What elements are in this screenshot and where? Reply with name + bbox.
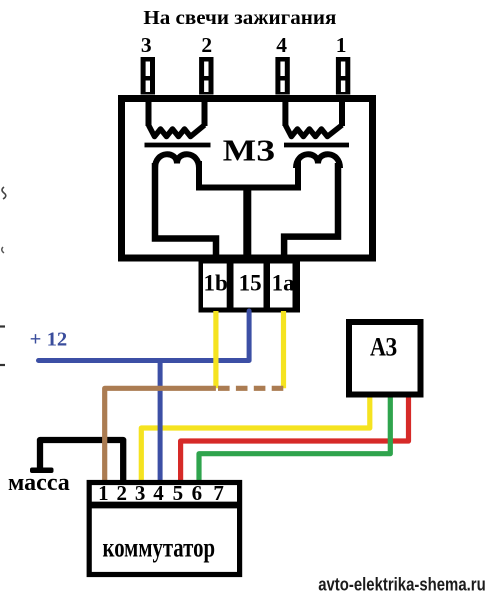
A3 box bbox=[349, 322, 421, 395]
svg-text:1: 1 bbox=[336, 33, 347, 57]
svg-text:АЗ: АЗ bbox=[370, 333, 397, 362]
HV terminal 3 bbox=[141, 57, 155, 95]
svg-text:+ 12: + 12 bbox=[30, 330, 67, 351]
svg-text:3: 3 bbox=[135, 481, 146, 505]
coil T2 secondary winding bbox=[285, 125, 342, 137]
coil T1 primary winding bbox=[155, 154, 199, 168]
edge artifact 2 bbox=[2, 247, 4, 253]
svg-text:4: 4 bbox=[276, 33, 287, 57]
edge artifact 1 bbox=[2, 187, 6, 199]
svg-text:масса: масса bbox=[8, 470, 70, 496]
wire yellow A3 to pin3 bbox=[141, 396, 369, 482]
wire yellow from 1b bbox=[213, 311, 218, 388]
HV terminal 2 bbox=[199, 57, 213, 95]
coil T2 core bbox=[284, 143, 349, 148]
HV terminal 4 bbox=[275, 57, 289, 95]
coil T2 secondary leads bbox=[285, 98, 342, 126]
svg-text:2: 2 bbox=[116, 481, 127, 505]
svg-text:7: 7 bbox=[213, 481, 224, 505]
wire yellow from 1a bbox=[281, 311, 286, 388]
svg-text:avto-elektrika-shema.ru: avto-elektrika-shema.ru bbox=[318, 574, 486, 594]
primary center connector bbox=[199, 161, 298, 188]
svg-text:2: 2 bbox=[201, 33, 212, 57]
svg-text:коммутатор: коммутатор bbox=[103, 533, 216, 563]
coil T1 secondary winding bbox=[149, 125, 205, 137]
wire blue drop to pin4 bbox=[158, 361, 163, 483]
coil T1 primary outer lead to 1b bbox=[155, 163, 216, 263]
edge artifact 3 bbox=[0, 325, 5, 327]
svg-text:3: 3 bbox=[141, 33, 152, 57]
ground symbol bbox=[30, 468, 54, 474]
connector block 1b 15 1a bbox=[199, 258, 301, 313]
coil T2 primary winding bbox=[296, 154, 340, 168]
coil T1 secondary leads bbox=[149, 98, 205, 126]
svg-text:1: 1 bbox=[98, 481, 109, 505]
wire brown dashed bbox=[218, 386, 285, 391]
watermark avto-elektrika-shema.ru bbox=[318, 574, 486, 594]
ground wire from pin2 bbox=[40, 440, 123, 482]
svg-text:15: 15 bbox=[239, 271, 262, 296]
commutator box bbox=[89, 483, 240, 575]
svg-text:1a: 1a bbox=[272, 271, 296, 296]
svg-text:1b: 1b bbox=[204, 271, 228, 296]
wire green A3 to pin6 bbox=[199, 396, 390, 482]
ignition module box МЗ bbox=[122, 99, 373, 259]
coil T2 primary outer lead to 1a bbox=[284, 163, 338, 263]
svg-text:4: 4 bbox=[153, 481, 164, 505]
wire red A3 to pin5 bbox=[181, 396, 409, 482]
svg-text:МЗ: МЗ bbox=[223, 133, 275, 168]
svg-text:5: 5 bbox=[173, 481, 184, 505]
wire brown pin1 bbox=[105, 388, 216, 482]
center tap lead to 15 bbox=[243, 188, 251, 264]
wire blue +12 to terminal 15 bbox=[39, 311, 250, 361]
coil T1 core bbox=[145, 143, 211, 148]
edge artifact 4 bbox=[0, 364, 5, 366]
HV terminal 1 bbox=[336, 57, 350, 95]
svg-text:На свечи зажигания: На свечи зажигания bbox=[143, 7, 336, 29]
svg-text:6: 6 bbox=[192, 481, 203, 505]
